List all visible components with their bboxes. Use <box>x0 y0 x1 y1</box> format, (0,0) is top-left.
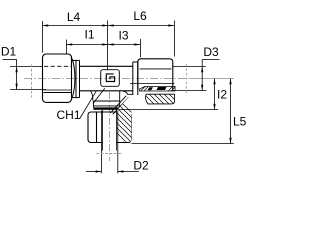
section blob right of bottom port <box>141 91 186 106</box>
centerline vertical axis <box>109 92 111 161</box>
dim L5 <box>132 79 234 144</box>
nut left face arc <box>72 58 75 100</box>
nut left <box>43 54 72 102</box>
dim I1 <box>67 40 109 54</box>
ferrule dark piece 2 <box>157 87 167 90</box>
svg-text:CH1: CH1 <box>56 108 80 122</box>
collar left <box>72 60 80 97</box>
tube right bottom edge <box>171 90 207 92</box>
svg-text:I3: I3 <box>118 29 128 43</box>
right port bore line <box>130 82 175 84</box>
svg-text:I2: I2 <box>217 87 227 101</box>
bottom tube OD / D2 extension lines <box>100 111 102 174</box>
ferrule dark band bottom port <box>93 107 119 109</box>
hatch right side of bottom nut <box>108 89 138 154</box>
tube right end (phantom) <box>185 64 187 93</box>
tube left end (phantom) <box>31 65 33 98</box>
flange washer bottom port <box>93 101 119 108</box>
dim D3 <box>202 60 219 91</box>
neck chamfer left arc <box>91 91 93 101</box>
centerline horizontal axis <box>24 78 190 80</box>
dim L6 <box>108 21 175 57</box>
neck chamfer right diagonals <box>110 96 126 113</box>
label CH1 + leader <box>80 91 96 118</box>
dim I2 <box>119 79 218 110</box>
nut left bottom facet <box>44 89 72 91</box>
svg-text:L5: L5 <box>233 115 247 129</box>
nut right <box>138 59 173 90</box>
dim D2 <box>86 171 139 173</box>
dim I3 <box>108 39 141 58</box>
section band right port <box>140 86 176 91</box>
svg-text:L6: L6 <box>133 9 147 23</box>
bottom tube bore walls <box>103 110 117 151</box>
centerline extension right (I2/L5 datum) <box>190 78 234 80</box>
EO2 symbol box U <box>101 70 120 87</box>
svg-text:D3: D3 <box>203 45 219 59</box>
svg-text:I1: I1 <box>84 28 94 42</box>
nut bottom (sectioned) <box>88 112 131 143</box>
tube left bottom edge <box>10 89 46 91</box>
tube right top edge <box>173 66 206 68</box>
collar right <box>133 62 138 95</box>
svg-text:D1: D1 <box>1 45 17 59</box>
body hex <box>80 66 133 91</box>
body bottom right step <box>123 91 133 94</box>
dim L4 <box>43 21 109 71</box>
dim D1 <box>3 60 17 90</box>
svg-text:D2: D2 <box>133 158 149 172</box>
band hatch lines <box>141 87 175 91</box>
tube left top edge <box>10 66 43 68</box>
bottom tube end (phantom) <box>97 153 124 155</box>
neck right wall <box>119 91 121 107</box>
svg-text:L4: L4 <box>67 10 81 24</box>
EO2 spiral glyph <box>106 74 114 82</box>
ferrule dark piece 1 <box>148 87 154 90</box>
